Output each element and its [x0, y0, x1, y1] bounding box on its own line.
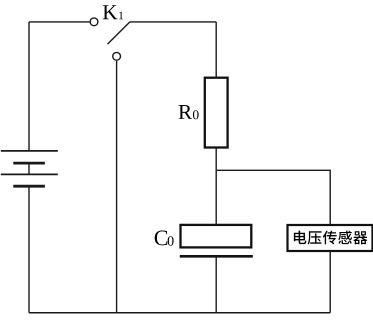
- switch label K1: [103, 5, 123, 19]
- battery cell 1 long plate: [1, 150, 58, 152]
- wire capacitor bottom plate down to bottom wire: [215, 257, 217, 313]
- battery cell 2 short plate: [13, 185, 45, 188]
- wire left vertical lower (battery to bottom wire): [28, 186, 30, 313]
- capacitor C0 bottom plate: [180, 255, 253, 258]
- battery cell 2 long plate: [1, 173, 58, 175]
- resistor R0 body: [205, 78, 228, 148]
- wire branch node to voltage sensor (horizontal then vertical): [216, 170, 330, 225]
- switch K1 left terminal circle: [90, 18, 98, 26]
- wire from switch lower terminal down to bottom wire: [116, 61, 118, 313]
- battery cell 1 short plate: [13, 162, 45, 165]
- voltage sensor box: [288, 225, 373, 251]
- wire R0 bottom down to capacitor top plate: [215, 148, 217, 225]
- wire top-right horizontal (switch to R0 branch): [130, 21, 216, 23]
- switch K1 lower terminal circle: [113, 52, 121, 60]
- resistor label R0: [179, 105, 199, 119]
- capacitor C0 top plate (boxed): [181, 225, 252, 248]
- wire sensor box bottom down to bottom wire: [329, 251, 331, 313]
- voltage sensor label (CJK glyphs as paths): [294, 231, 368, 245]
- switch K1 blade (open): [108, 22, 130, 44]
- wire right vertical down to R0 top: [215, 22, 217, 78]
- battery inter-cell connector wire: [28, 163, 30, 174]
- capacitor label C0: [155, 231, 174, 246]
- wire top-left horizontal (battery top to switch terminal): [29, 21, 90, 23]
- bottom wire: [29, 312, 330, 314]
- wire left vertical upper (top wire down to battery): [28, 22, 30, 151]
